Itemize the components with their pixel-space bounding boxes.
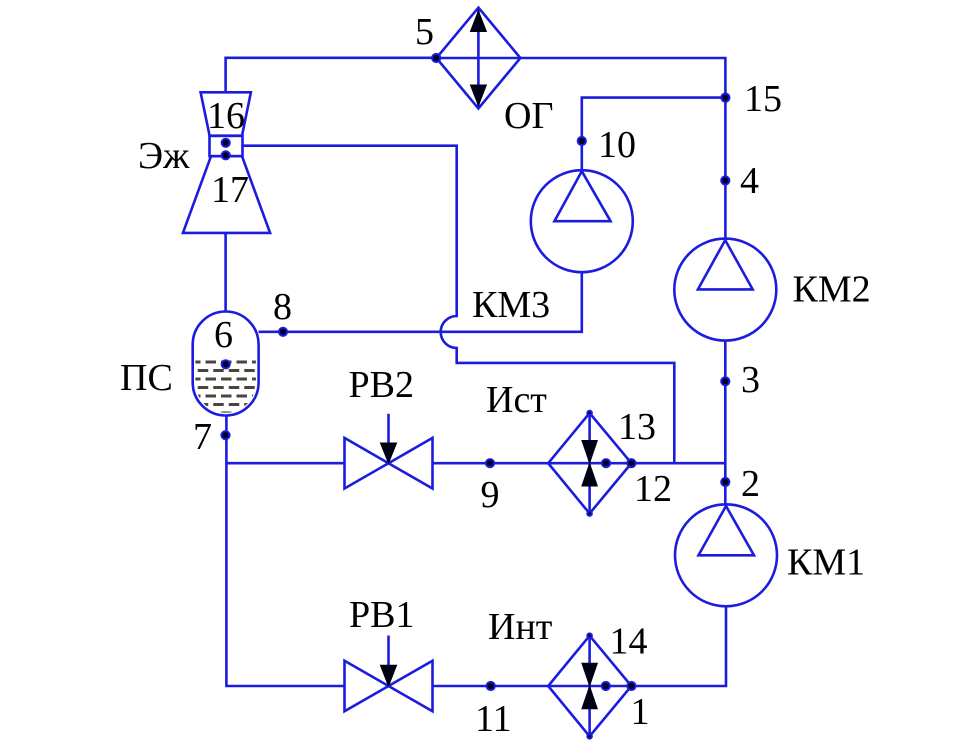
- svg-text:14: 14: [610, 621, 648, 663]
- svg-text:Инт: Инт: [488, 606, 553, 648]
- svg-text:1: 1: [631, 691, 650, 733]
- svg-text:17: 17: [211, 169, 249, 211]
- svg-text:ПС: ПС: [120, 357, 173, 399]
- svg-text:3: 3: [741, 359, 760, 401]
- svg-text:13: 13: [618, 406, 656, 448]
- svg-text:Ист: Ист: [486, 379, 547, 421]
- svg-text:15: 15: [744, 78, 782, 120]
- svg-text:КМ2: КМ2: [793, 269, 871, 311]
- svg-text:КМ3: КМ3: [472, 284, 550, 326]
- svg-text:7: 7: [193, 416, 212, 458]
- svg-text:16: 16: [207, 95, 245, 137]
- svg-text:8: 8: [273, 286, 292, 328]
- svg-text:2: 2: [741, 463, 760, 505]
- svg-text:КМ1: КМ1: [787, 542, 865, 584]
- svg-text:12: 12: [634, 468, 672, 510]
- svg-text:РВ2: РВ2: [349, 364, 414, 406]
- svg-text:4: 4: [740, 160, 759, 202]
- svg-text:11: 11: [475, 698, 512, 740]
- svg-text:9: 9: [481, 474, 500, 516]
- svg-text:РВ1: РВ1: [349, 594, 414, 636]
- svg-text:5: 5: [415, 11, 434, 53]
- svg-text:10: 10: [598, 124, 636, 166]
- svg-text:Эж: Эж: [138, 135, 190, 177]
- svg-text:ОГ: ОГ: [504, 95, 553, 137]
- svg-text:6: 6: [214, 314, 233, 356]
